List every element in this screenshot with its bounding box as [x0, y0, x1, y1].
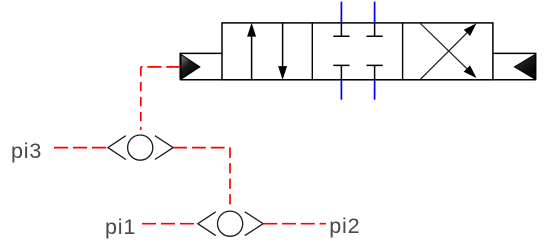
pilot line: pi1 to SV2 inlet — [142, 223, 198, 225]
pilot actuator triangle right — [514, 54, 535, 79]
shuttle valve SV2 left seat chevron — [198, 212, 216, 236]
pilot actuator box left — [180, 53, 222, 79]
shuttle valve SV1 ball — [128, 135, 153, 160]
pilot line: drop to SV2 top — [229, 148, 231, 206]
pilot line: pi3 to SV1 inlet — [54, 147, 108, 149]
center position: blocked port bottom-right — [367, 65, 383, 79]
port line T (blue, bottom-right) — [374, 80, 376, 100]
pilot actuator triangle left — [181, 54, 200, 79]
pilot line: drop to SV1 top — [140, 67, 142, 130]
center position: blocked port top-right — [367, 23, 383, 36]
left position: down-flow arrow — [278, 23, 287, 80]
port line P (blue, bottom-left) — [340, 80, 342, 100]
shuttle valve SV2 right seat chevron — [245, 212, 263, 236]
svg-text:pi1: pi1 — [105, 215, 136, 239]
left position: up-flow arrow — [247, 23, 256, 80]
svg-text:pi3: pi3 — [11, 139, 42, 163]
valve V1 position divider right — [402, 23, 404, 80]
valve V1 body outline (3-position envelope) — [222, 23, 493, 80]
shuttle valve SV1 right seat chevron — [155, 136, 173, 160]
right position: crossed flow arrow down-right — [420, 23, 477, 78]
pilot actuator box right — [493, 53, 536, 79]
pilot line: SV1 outlet horizontal run — [173, 147, 230, 149]
valve V1 position divider left — [311, 23, 313, 80]
shuttle valve SV2 ball — [218, 211, 243, 236]
svg-text:pi2: pi2 — [329, 214, 360, 238]
right position: crossed flow arrow up-right — [420, 23, 477, 80]
net label pi2 — [329, 214, 360, 238]
net label pi1 — [105, 215, 136, 239]
valve bottom rail — [180, 79, 536, 81]
port line B (blue, top-right) — [374, 2, 376, 24]
port line A (blue, top-left) — [340, 2, 342, 24]
center position: blocked port top-left — [333, 23, 349, 36]
pilot line: left actuator horizontal run — [141, 66, 180, 68]
net label pi3 — [11, 139, 42, 163]
shuttle valve SV1 left seat chevron — [108, 136, 126, 160]
pilot line: SV2 outlet to pi2 — [263, 223, 326, 225]
center position: blocked port bottom-left — [333, 65, 349, 79]
